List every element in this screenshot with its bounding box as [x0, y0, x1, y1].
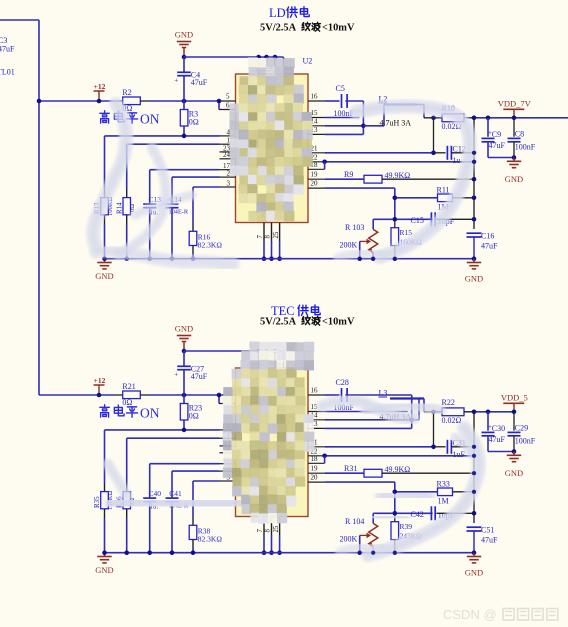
junction rail	[170, 550, 175, 555]
wire cap bottoms	[488, 451, 514, 453]
capacitor C42	[395, 512, 433, 514]
junction vout/R11	[472, 490, 477, 495]
junction rail	[170, 256, 175, 261]
pin 24	[220, 158, 236, 160]
pin 23	[220, 445, 236, 447]
junction vout/R9	[472, 471, 477, 476]
resistor R38 82.3K	[192, 481, 194, 517]
resistor R23 0 ohm	[183, 395, 185, 404]
wire sense kelvin vertical	[433, 118, 435, 153]
wire pin2 to C14	[172, 176, 220, 178]
wire pin22 row	[325, 455, 474, 457]
pin 17	[220, 169, 236, 171]
resistor R39	[394, 513, 396, 521]
pin 16	[308, 394, 325, 396]
pin 21	[308, 446, 325, 448]
junction pin5/6	[217, 393, 222, 398]
junction sense left	[431, 116, 436, 121]
pin 19	[308, 178, 325, 180]
wire pin21 to C12	[325, 152, 434, 154]
pin 15	[308, 117, 325, 119]
ground output caps	[513, 452, 515, 456]
junction +12	[97, 99, 102, 104]
junction rail	[124, 256, 129, 261]
junction vdd	[512, 116, 517, 121]
resistor R36	[126, 438, 128, 483]
ground bottom-left	[104, 259, 106, 263]
capacitor C29 100nF	[513, 412, 515, 431]
pin 5	[219, 394, 236, 396]
wire vout vertical	[473, 118, 475, 229]
wire pin14	[325, 419, 412, 421]
wire pin3 to R16	[193, 480, 220, 482]
junction rail	[102, 256, 107, 261]
junction rail	[124, 550, 129, 555]
junction C12 left	[431, 151, 436, 156]
pin 2	[220, 176, 236, 178]
junction rail R15	[393, 550, 398, 555]
pin 24	[220, 452, 236, 454]
capacitor C13	[149, 170, 151, 204]
pin 5	[219, 100, 236, 102]
junction fb/R11	[393, 196, 398, 201]
pin 4	[220, 429, 236, 431]
wire vout vertical	[473, 412, 475, 523]
wire pin13	[325, 133, 364, 135]
junction C12 right	[472, 151, 477, 156]
junction rail	[102, 550, 107, 555]
inductor L2 4.7uH	[363, 125, 384, 127]
resistor R31 49.9K	[325, 472, 364, 474]
junction C12 left	[431, 445, 436, 450]
pin 18	[308, 462, 325, 464]
resistor R3 0 ohm	[183, 101, 185, 110]
junction rail pot	[371, 256, 376, 261]
pin 3	[220, 186, 236, 188]
pin 7	[263, 517, 265, 536]
svg-text:CSDN @: CSDN @	[443, 607, 497, 622]
pin 11	[266, 351, 268, 356]
potentiometer R 103	[373, 218, 395, 220]
wire ground rail	[105, 258, 475, 260]
pin 22	[308, 455, 325, 457]
ground top	[183, 48, 185, 58]
capacitor C8 100nF	[513, 118, 515, 137]
pin 3	[220, 480, 236, 482]
pin 9	[283, 351, 285, 356]
junction left bus	[37, 99, 42, 104]
pin 15	[308, 411, 325, 413]
ground bottom-right	[473, 553, 475, 557]
label high-level ON	[100, 405, 110, 417]
pin 11	[266, 57, 268, 62]
capacitor C41	[171, 471, 173, 498]
wire C4 to gnd	[183, 351, 185, 366]
wire pin17 to C13	[150, 463, 220, 465]
junction pin22/pin18	[322, 160, 327, 165]
wire left bus vertical	[38, 20, 40, 395]
wire pin1 to R14	[127, 437, 220, 439]
resistor R21	[114, 394, 123, 396]
capacitor C30 47uF polarized	[487, 412, 489, 431]
junction gnd caps	[512, 155, 517, 160]
pin 16	[308, 100, 325, 102]
ground bottom-right	[473, 259, 475, 263]
wire pin17 to C13	[150, 169, 220, 171]
wire input row left	[39, 100, 114, 102]
resistor R15	[394, 219, 396, 227]
resistor R35 100K	[104, 430, 106, 483]
wire input row right	[150, 100, 219, 102]
resistor R10 sense 0.02	[442, 114, 464, 122]
pin 18	[308, 168, 325, 170]
wire C4 to gnd	[183, 57, 185, 72]
ground top	[183, 342, 185, 352]
pin 4	[220, 135, 236, 137]
junction gnd caps	[512, 449, 517, 454]
inductor L3 4.7uH	[412, 419, 419, 421]
junction rail	[191, 550, 196, 555]
junction rail right end	[472, 256, 477, 261]
pin 20	[308, 187, 325, 189]
junction rail pot wiper	[357, 550, 362, 555]
wire pin14	[325, 125, 364, 127]
junction pin14 node	[409, 418, 414, 423]
op-amp regulator U4 body	[236, 368, 309, 517]
pin 10	[274, 57, 276, 62]
capacitor C40	[149, 464, 151, 498]
pin 20	[308, 481, 325, 483]
pin 14	[308, 125, 325, 127]
wire top pins bus	[184, 56, 284, 58]
resistor R14	[126, 144, 128, 189]
junction fb node	[393, 511, 398, 516]
pin 6	[218, 101, 220, 110]
pin 22	[308, 161, 325, 163]
wire top-left horizontal	[0, 19, 39, 21]
wire output row	[424, 411, 442, 413]
wire pin18 link	[324, 456, 326, 464]
pin 25	[279, 223, 281, 242]
wire ground rail	[105, 552, 475, 554]
resistor R9 49.9K	[325, 178, 364, 180]
wire cap bottoms	[488, 157, 514, 159]
pin 12	[258, 351, 260, 356]
junction vout row	[472, 410, 477, 415]
pin 13	[308, 427, 325, 429]
pin 2	[220, 470, 236, 472]
pin 25	[279, 517, 281, 536]
junction vout/R9	[472, 177, 477, 182]
resistor R11 1M	[395, 197, 438, 199]
junction rail	[191, 256, 196, 261]
capacitor C12 1uF	[434, 152, 446, 154]
junction pin4/R3	[182, 134, 187, 139]
pin 14	[308, 419, 325, 421]
junction pin4/R3	[182, 428, 187, 433]
pin 10	[274, 351, 276, 356]
junction vout row	[472, 116, 477, 121]
resistor R13 100K	[104, 136, 106, 189]
junction vout/C15	[472, 511, 477, 516]
wire pin1 to R14	[127, 143, 220, 145]
wire pin22 row	[325, 161, 474, 163]
wire input row right	[150, 394, 219, 396]
junction rail pot wiper	[357, 256, 362, 261]
pin 9	[283, 57, 285, 62]
junction vout/C15	[472, 217, 477, 222]
wire pin20 down	[325, 187, 395, 189]
junction rail right end	[472, 550, 477, 555]
junction C12 right	[472, 445, 477, 450]
wire pin16 net	[345, 100, 363, 102]
wire pin15	[325, 117, 360, 119]
wire output row 2	[464, 411, 474, 413]
capacitor C27 47uF polarized	[177, 365, 191, 367]
capacitor C4 47uF polarized	[177, 71, 191, 73]
resistor R16 82.3K	[192, 187, 194, 223]
pin 8	[271, 223, 273, 242]
wire pin13	[325, 427, 412, 429]
junction fb node	[393, 217, 398, 222]
ground output caps	[513, 158, 515, 162]
wire output row to edge	[514, 117, 568, 119]
pin 17	[220, 463, 236, 465]
junction rail	[147, 256, 152, 261]
wire pin18 link	[324, 162, 326, 170]
pin 19	[308, 472, 325, 474]
wire pin15	[325, 411, 408, 413]
junction rail	[147, 550, 152, 555]
pin 21	[308, 152, 325, 154]
capacitor C5 100nF	[325, 100, 340, 102]
pin 1	[220, 437, 236, 439]
label high-level ON	[100, 111, 110, 123]
junction R3 top node	[182, 99, 187, 104]
junction vout/pin22	[472, 454, 477, 459]
junction C9 top	[486, 116, 491, 121]
pin 13	[308, 133, 325, 135]
junction pin14 node	[361, 124, 366, 129]
junction vout/pin22	[472, 160, 477, 165]
junction vdd	[512, 410, 517, 415]
wire output row	[424, 117, 442, 119]
junction sense left	[431, 410, 436, 415]
ground bottom-left	[104, 553, 106, 557]
capacitor C14	[171, 177, 173, 204]
capacitor C16 47uF	[467, 232, 482, 234]
capacitor C9 47uF polarized	[487, 118, 489, 137]
junction pin22/pin18	[322, 454, 327, 459]
wire pin2 to C14	[172, 470, 220, 472]
resistor R33 1M	[395, 491, 438, 493]
junction +12	[97, 393, 102, 398]
pin 8	[271, 517, 273, 536]
wire pin16 net	[345, 394, 411, 396]
junction rail R15	[393, 256, 398, 261]
wire pin4 to R13	[105, 135, 220, 137]
capacitor C31 1uF	[434, 446, 446, 448]
pin 6	[218, 395, 220, 404]
wire pin21 to C12	[325, 446, 434, 448]
capacitor C28 100nF	[325, 394, 340, 396]
wire pin3 to R16	[193, 186, 220, 188]
pin 23	[220, 151, 236, 153]
capacitor C51 47uF	[467, 526, 482, 528]
wire pin4 to R13	[105, 429, 220, 431]
junction gnd/C4	[182, 349, 187, 354]
junction gnd/C4	[182, 55, 187, 60]
wire sense kelvin vertical	[433, 412, 435, 447]
pin 1	[220, 143, 236, 145]
wire input row left	[39, 394, 114, 396]
wire top pins bus	[184, 350, 284, 352]
pin 12	[258, 57, 260, 62]
junction C9 top	[486, 410, 491, 415]
resistor R22 sense 0.02	[442, 408, 464, 416]
junction R3 top node	[182, 393, 187, 398]
junction vout/R11	[472, 196, 477, 201]
junction fb/R11	[393, 490, 398, 495]
resistor R2	[114, 100, 123, 102]
junction pin5/6	[217, 99, 222, 104]
potentiometer R 104	[373, 512, 395, 514]
junction rail pot	[371, 550, 376, 555]
wire output row 2	[464, 117, 474, 119]
wire pin20 down	[325, 481, 395, 483]
op-amp regulator U2 body	[236, 74, 309, 223]
pin 7	[263, 223, 265, 242]
capacitor C15	[395, 218, 433, 220]
